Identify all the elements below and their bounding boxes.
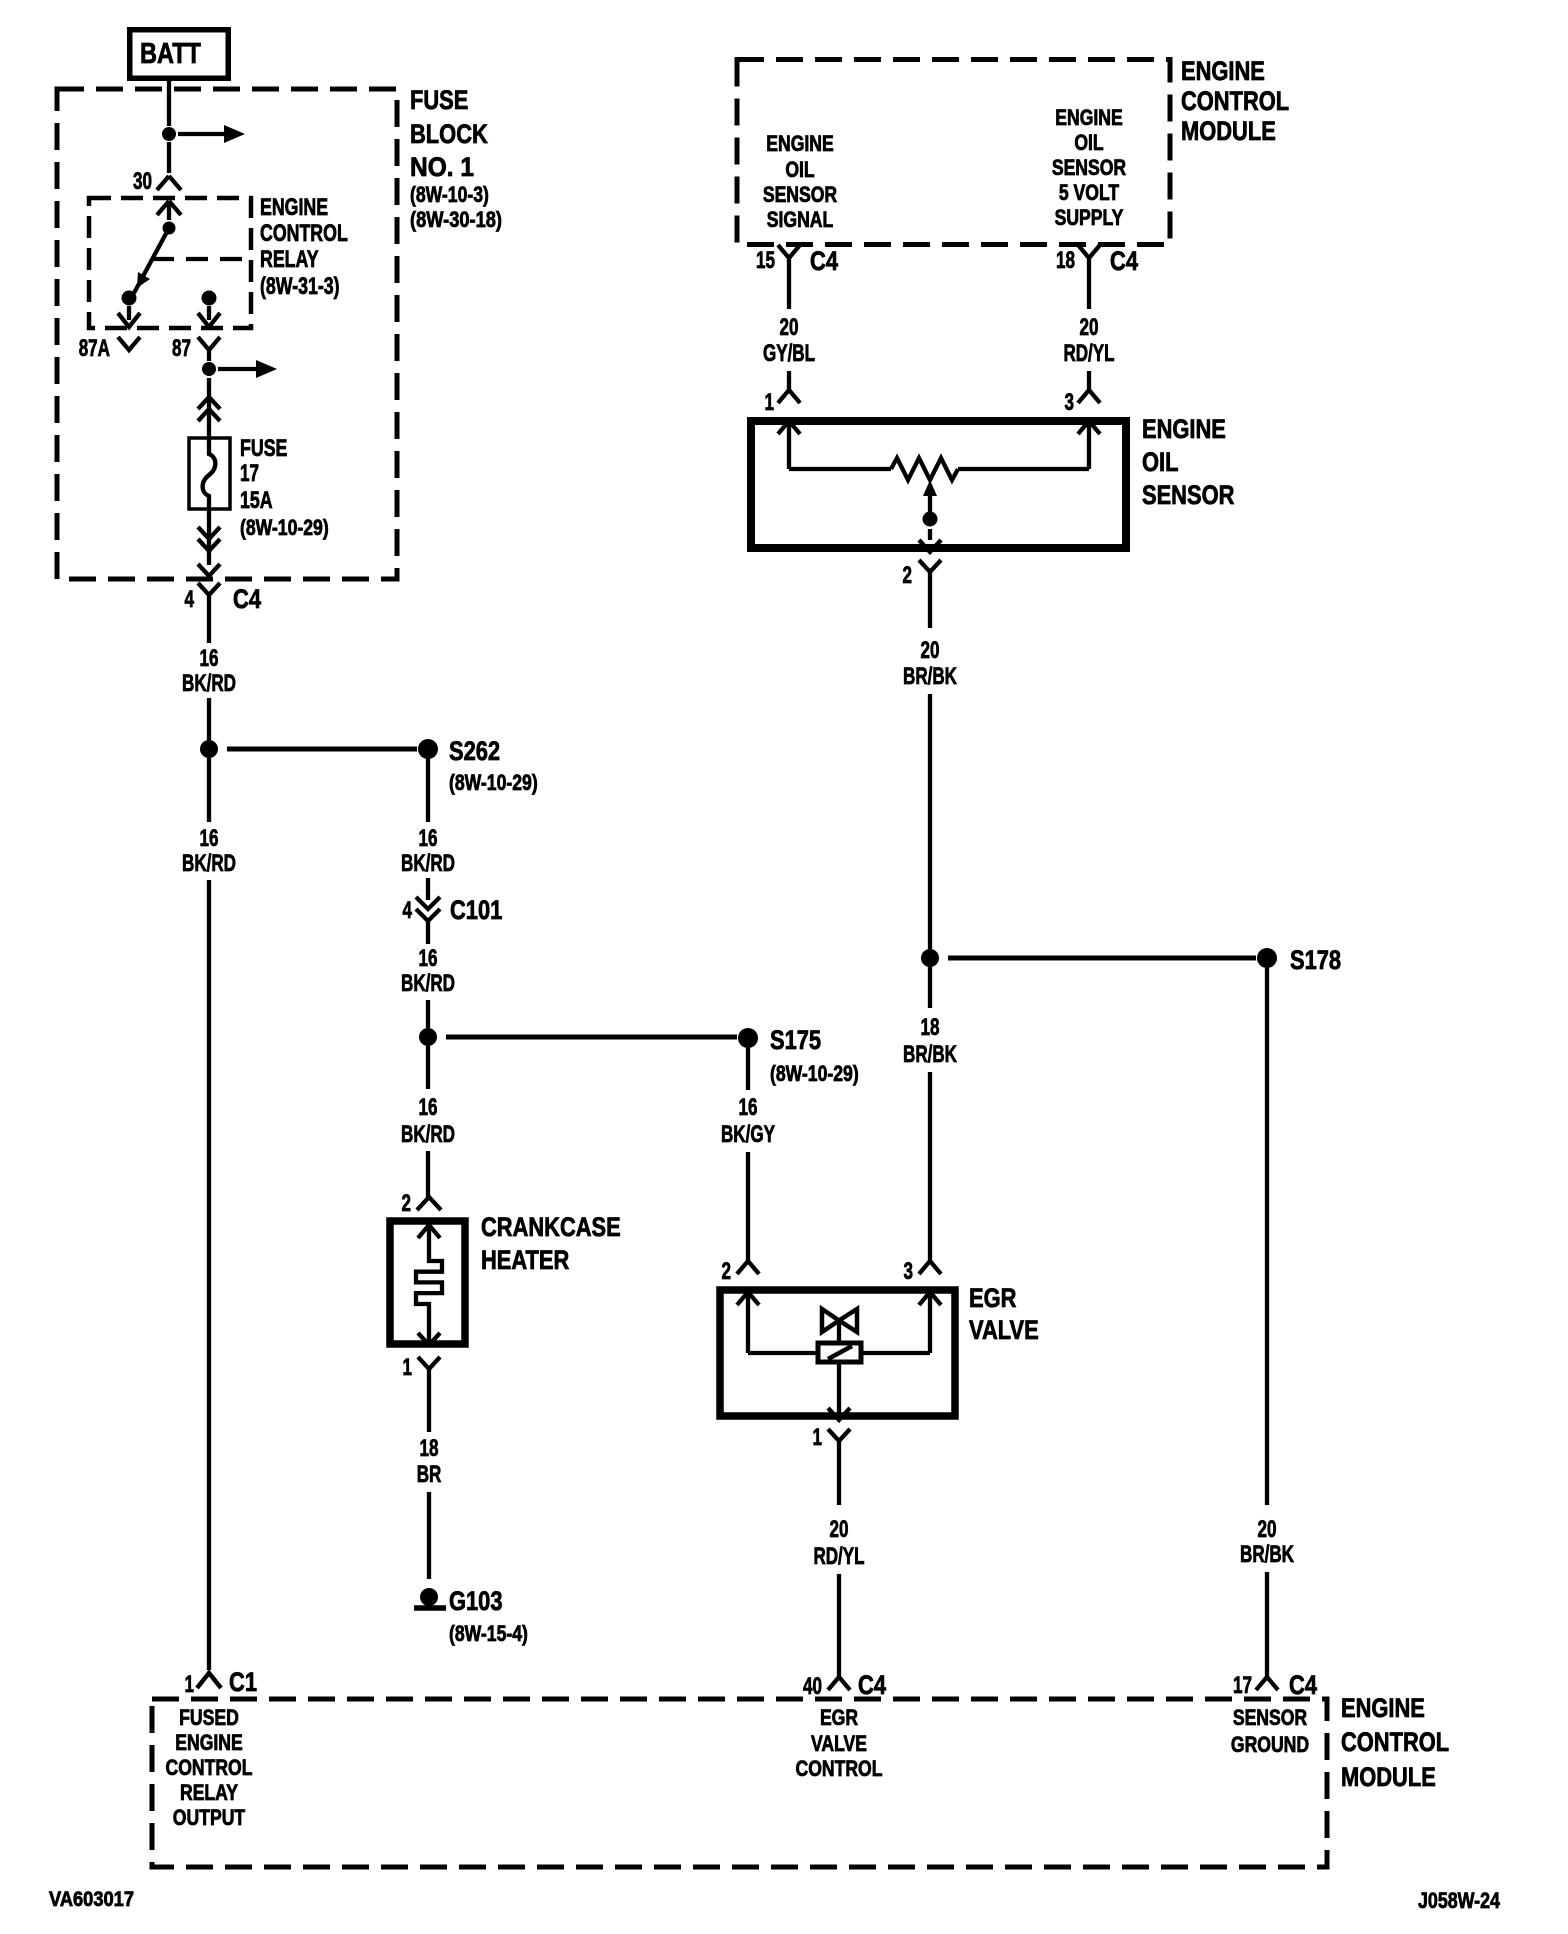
svg-text:VALVE: VALVE — [811, 1731, 867, 1756]
svg-text:17: 17 — [1233, 1672, 1252, 1699]
svg-text:2: 2 — [722, 1258, 732, 1285]
wire 16 BK/RD below C4 — [182, 613, 236, 740]
svg-text:CRANKCASE: CRANKCASE — [481, 1212, 621, 1242]
svg-text:S175: S175 — [770, 1025, 821, 1055]
svg-text:BK/RD: BK/RD — [182, 670, 236, 697]
EGR valve pin 2 connector — [722, 1258, 760, 1285]
svg-text:1: 1 — [185, 1671, 195, 1698]
svg-text:RELAY: RELAY — [180, 1780, 238, 1805]
svg-text:CONTROL: CONTROL — [796, 1756, 883, 1781]
label ENGINE CONTROL MODULE (bottom) — [1341, 1693, 1449, 1792]
svg-text:HEATER: HEATER — [481, 1245, 569, 1275]
connector C4 pin 17 — [1233, 1670, 1317, 1700]
svg-text:S262: S262 — [449, 736, 500, 766]
svg-text:1: 1 — [813, 1424, 823, 1451]
svg-text:BK/RD: BK/RD — [182, 850, 236, 877]
wire splice to EGR pin 3 (18 BR/BK) — [903, 967, 957, 1261]
svg-text:OIL: OIL — [1074, 130, 1103, 155]
svg-text:ENGINE: ENGINE — [1181, 56, 1265, 86]
svg-text:C4: C4 — [1110, 246, 1138, 276]
svg-text:FUSED: FUSED — [179, 1705, 239, 1730]
svg-text:VA603017: VA603017 — [49, 1888, 134, 1911]
connector C4 pin 4 — [185, 564, 262, 614]
svg-text:SIGNAL: SIGNAL — [767, 207, 834, 232]
svg-text:C4: C4 — [810, 246, 838, 276]
svg-text:16: 16 — [419, 825, 438, 852]
wire S175 to EGR pin 2 (16 BK/GY) — [721, 1048, 775, 1261]
svg-text:17: 17 — [240, 460, 259, 487]
svg-text:C101: C101 — [450, 895, 502, 925]
fuse 17 15A — [189, 435, 329, 540]
inline terminal (double chevron down) — [198, 527, 220, 551]
EGR valve pin 3 connector — [904, 1258, 942, 1285]
pin 30 connector (terminal pair) — [133, 168, 181, 220]
svg-text:(8W-30-18): (8W-30-18) — [410, 207, 502, 232]
svg-text:BR/BK: BR/BK — [1240, 1541, 1294, 1568]
svg-text:ENGINE: ENGINE — [260, 194, 328, 221]
inline terminal (double chevron up) — [198, 397, 220, 421]
wire S262 to C101 (16 BK/RD) — [401, 759, 455, 900]
label EGR VALVE CONTROL — [796, 1705, 883, 1781]
svg-text:FUSE: FUSE — [410, 85, 468, 115]
svg-text:ENGINE: ENGINE — [175, 1730, 243, 1755]
label ENGINE OIL SENSOR SIGNAL — [763, 131, 837, 232]
svg-text:SENSOR: SENSOR — [1233, 1705, 1307, 1730]
wire S178 to C4 pin 17 (20 BR/BK) — [1240, 968, 1294, 1677]
svg-text:2: 2 — [903, 562, 913, 589]
svg-text:G103: G103 — [449, 1586, 503, 1616]
EGR valve — [720, 1283, 1039, 1420]
svg-text:OUTPUT: OUTPUT — [173, 1805, 246, 1830]
svg-text:2: 2 — [402, 1190, 412, 1217]
oil sensor pin 3 connector — [1065, 389, 1101, 416]
svg-text:16: 16 — [419, 945, 438, 972]
svg-text:18: 18 — [420, 1435, 439, 1462]
label ENGINE OIL SENSOR 5 VOLT SUPPLY — [1052, 105, 1126, 230]
node: 87 output splice with feed arrow — [202, 360, 277, 438]
svg-text:3: 3 — [1065, 389, 1075, 416]
wire fuse to C4 — [207, 510, 211, 565]
svg-text:EGR: EGR — [969, 1283, 1016, 1313]
svg-text:(8W-31-3): (8W-31-3) — [260, 273, 340, 300]
svg-text:MODULE: MODULE — [1341, 1762, 1436, 1792]
svg-text:BR/BK: BR/BK — [903, 1041, 957, 1068]
svg-text:(8W-10-29): (8W-10-29) — [240, 515, 329, 540]
relay contact 87 — [172, 291, 220, 363]
svg-text:BR: BR — [417, 1461, 442, 1488]
svg-text:ENGINE: ENGINE — [1341, 1693, 1425, 1723]
connector C1 pin 1 — [185, 1667, 258, 1698]
wire 16 BK/RD trunk down to C1 — [182, 758, 236, 1670]
svg-text:CONTROL: CONTROL — [260, 220, 348, 247]
svg-text:20: 20 — [1258, 1516, 1277, 1543]
svg-text:BK/GY: BK/GY — [721, 1121, 775, 1148]
svg-text:OIL: OIL — [785, 157, 814, 182]
svg-text:GROUND: GROUND — [1231, 1732, 1309, 1757]
svg-text:16: 16 — [200, 825, 219, 852]
svg-text:BLOCK: BLOCK — [410, 119, 488, 149]
ground G103 — [414, 1586, 528, 1646]
svg-text:87A: 87A — [79, 335, 110, 362]
footer drawing number J058W-24 — [1418, 1888, 1501, 1913]
svg-text:18: 18 — [921, 1014, 940, 1041]
svg-text:(8W-10-29): (8W-10-29) — [449, 770, 538, 795]
svg-text:OIL: OIL — [1142, 447, 1179, 477]
svg-text:EGR: EGR — [820, 1705, 858, 1730]
wire BATT to pin 30 — [167, 81, 171, 173]
crankcase heater — [390, 1212, 621, 1345]
svg-text:RD/YL: RD/YL — [1063, 340, 1114, 367]
svg-text:C1: C1 — [229, 1667, 257, 1697]
svg-text:RD/YL: RD/YL — [813, 1543, 864, 1570]
svg-text:C4: C4 — [858, 1670, 886, 1700]
svg-text:15: 15 — [756, 247, 775, 274]
wire 20 GY/BL — [763, 272, 815, 390]
label ENGINE CONTROL MODULE (top) — [1181, 56, 1289, 146]
wire 20 BR/BK — [903, 592, 957, 949]
connector C4 pin 18 — [1056, 245, 1138, 276]
svg-text:4: 4 — [185, 586, 195, 613]
wire heater to ground (18 BR) — [417, 1390, 442, 1579]
connector C101 pin 4 — [403, 895, 503, 941]
svg-text:SENSOR: SENSOR — [1142, 480, 1234, 510]
svg-text:20: 20 — [780, 314, 799, 341]
svg-text:20: 20 — [921, 637, 940, 664]
svg-text:BK/RD: BK/RD — [401, 850, 455, 877]
footer sheet number VA603017 — [49, 1888, 134, 1911]
EGR valve pin 1 connector — [813, 1424, 851, 1460]
crankcase heater pin 2 connector — [402, 1190, 442, 1217]
svg-text:C4: C4 — [1289, 1670, 1317, 1700]
label SENSOR GROUND — [1231, 1705, 1309, 1757]
relay switch arm — [134, 222, 176, 294]
svg-text:20: 20 — [1080, 314, 1099, 341]
svg-text:(8W-10-3): (8W-10-3) — [410, 182, 489, 207]
relay contact 87A — [79, 291, 140, 363]
engine oil sensor — [751, 414, 1234, 552]
svg-text:FUSE: FUSE — [240, 435, 287, 462]
svg-text:5 VOLT: 5 VOLT — [1059, 180, 1120, 205]
svg-text:VALVE: VALVE — [969, 1315, 1039, 1345]
svg-text:CONTROL: CONTROL — [1341, 1727, 1449, 1757]
relay dashed actuator link — [152, 257, 251, 261]
svg-text:20: 20 — [830, 1516, 849, 1543]
label FUSE BLOCK NO. 1 — [410, 85, 502, 232]
svg-text:87: 87 — [172, 335, 191, 362]
svg-text:NO. 1: NO. 1 — [410, 152, 474, 182]
svg-text:1: 1 — [765, 389, 775, 416]
fuse block no. 1 enclosure (dashed) — [57, 89, 397, 579]
connector C4 pin 40 — [803, 1670, 886, 1700]
splice S178 — [921, 945, 1341, 975]
svg-text:3: 3 — [904, 1258, 914, 1285]
wire splice to crankcase heater (16 BK/RD) — [401, 1046, 455, 1197]
svg-text:SENSOR: SENSOR — [763, 182, 837, 207]
svg-text:(8W-10-29): (8W-10-29) — [770, 1061, 859, 1086]
splice S262 — [200, 736, 538, 795]
svg-text:ENGINE: ENGINE — [1055, 105, 1123, 130]
crankcase heater pin 1 connector — [403, 1354, 441, 1390]
svg-text:15A: 15A — [240, 487, 273, 514]
svg-text:40: 40 — [803, 1673, 822, 1700]
oil sensor pin 2 connector — [903, 560, 942, 592]
svg-text:CONTROL: CONTROL — [1181, 86, 1289, 116]
relay enclosure ENGINE CONTROL RELAY (dashed) — [89, 198, 251, 328]
connector C4 pin 15 — [756, 245, 838, 276]
svg-text:CONTROL: CONTROL — [166, 1755, 253, 1780]
svg-text:4: 4 — [403, 897, 413, 924]
svg-text:MODULE: MODULE — [1181, 116, 1276, 146]
svg-text:16: 16 — [419, 1094, 438, 1121]
svg-text:C4: C4 — [233, 584, 261, 614]
wire EGR to C4 pin 40 (20 RD/YL) — [813, 1460, 864, 1677]
svg-text:BK/RD: BK/RD — [401, 970, 455, 997]
svg-text:BATT: BATT — [140, 38, 201, 70]
splice S175 — [419, 1025, 859, 1086]
oil sensor pin 1 connector — [765, 389, 801, 416]
node: battery feed splice with arrow — [162, 125, 245, 143]
svg-text:16: 16 — [739, 1094, 758, 1121]
label ENGINE CONTROL RELAY — [260, 194, 348, 300]
svg-text:ENGINE: ENGINE — [1142, 414, 1226, 444]
engine control module enclosure top (dashed) — [737, 60, 1170, 245]
label FUSED ENGINE CONTROL RELAY OUTPUT — [166, 1705, 253, 1830]
svg-text:J058W-24: J058W-24 — [1418, 1888, 1501, 1913]
svg-text:BK/RD: BK/RD — [401, 1121, 455, 1148]
svg-text:ENGINE: ENGINE — [766, 131, 834, 156]
svg-text:18: 18 — [1056, 247, 1075, 274]
svg-text:RELAY: RELAY — [260, 246, 319, 273]
svg-text:SENSOR: SENSOR — [1052, 155, 1126, 180]
svg-text:SUPPLY: SUPPLY — [1055, 205, 1124, 230]
svg-text:S178: S178 — [1290, 945, 1341, 975]
svg-text:1: 1 — [403, 1354, 413, 1381]
wire C101 to splice (16 BK/RD) — [401, 941, 455, 1028]
svg-text:(8W-15-4): (8W-15-4) — [449, 1621, 528, 1646]
wire 20 RD/YL (supply) — [1063, 272, 1114, 390]
engine control module enclosure bottom (dashed) — [152, 1699, 1327, 1867]
battery feed box BATT — [130, 30, 229, 79]
svg-text:16: 16 — [200, 645, 219, 672]
svg-text:BR/BK: BR/BK — [903, 663, 957, 690]
svg-text:30: 30 — [133, 168, 152, 195]
svg-text:GY/BL: GY/BL — [763, 340, 815, 367]
